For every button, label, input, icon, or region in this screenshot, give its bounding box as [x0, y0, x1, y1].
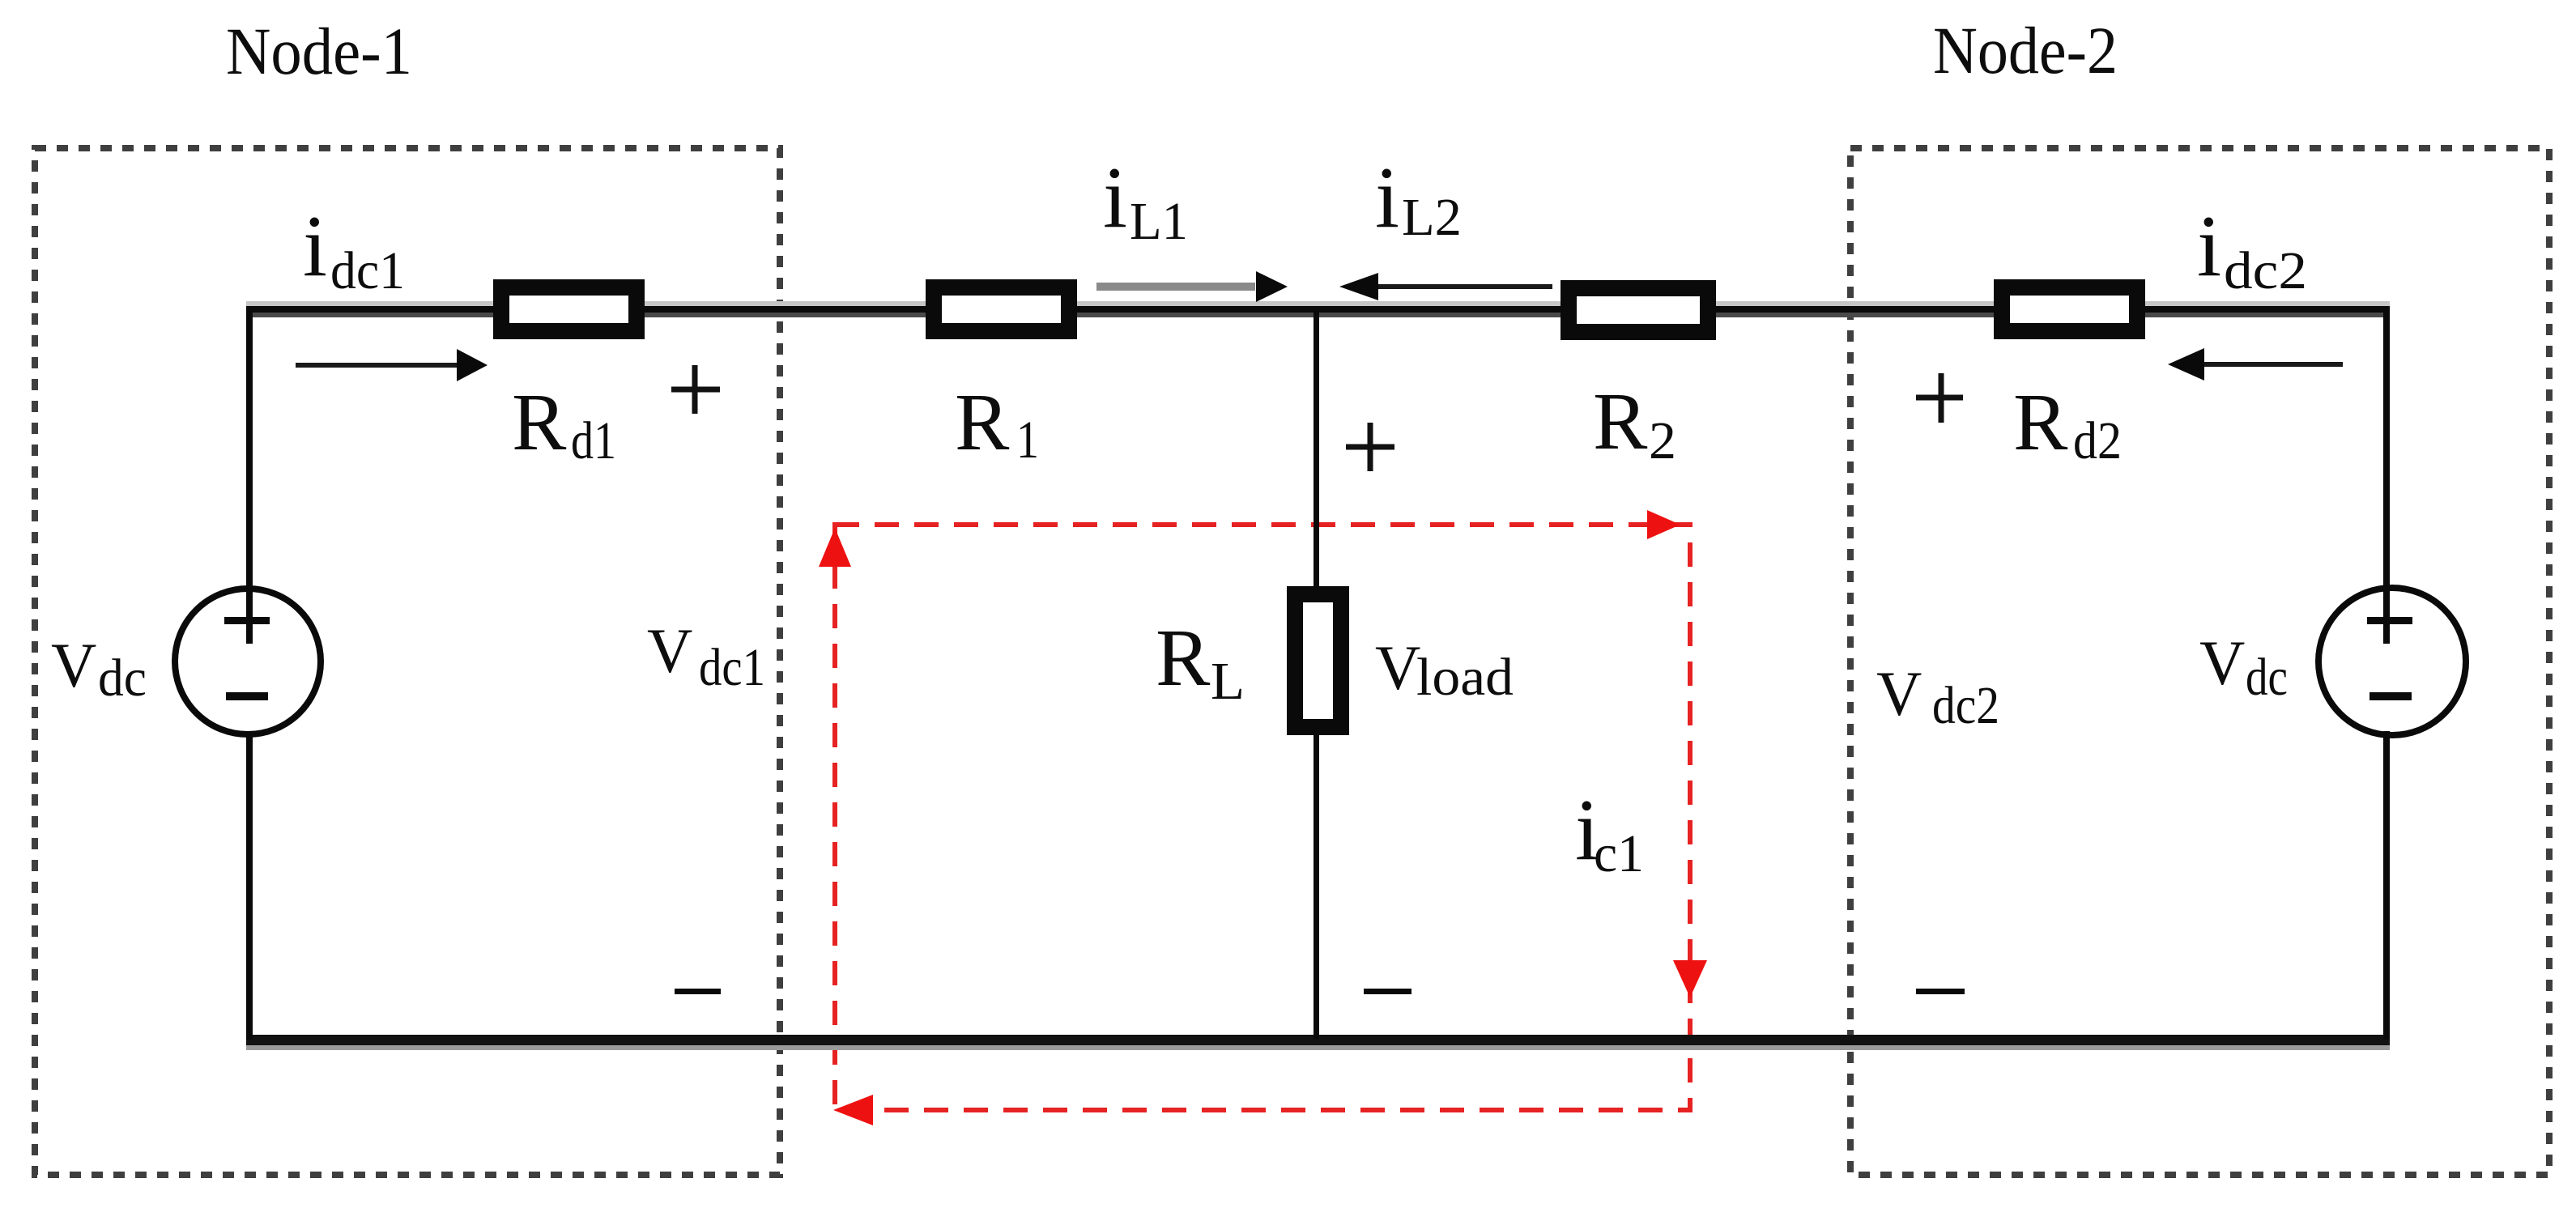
svg-text:Node-1: Node-1 [226, 14, 412, 88]
current arrow i_dc1 (points right) [296, 363, 458, 368]
wire top horizontal bus [246, 301, 2390, 306]
resistor Rd2 body [2002, 287, 2137, 331]
svg-text:V: V [1375, 632, 1420, 703]
svg-text:V: V [51, 630, 96, 700]
svg-text:V: V [647, 615, 692, 686]
svg-text:dc: dc [98, 649, 147, 708]
wire bottom horizontal bus [246, 1035, 2390, 1045]
polarity minus Vload [1364, 989, 1411, 994]
svg-text:i: i [2197, 198, 2221, 295]
svg-text:1: 1 [1016, 410, 1039, 470]
wire middle vertical upper segment (junction to RL) [1314, 313, 1319, 591]
voltage source Vdc (left) minus bar [226, 692, 268, 700]
voltage source Vdc (right) circle [2318, 588, 2466, 735]
polarity plus Vdc2 [1916, 373, 1963, 423]
node Node-1 dashed boundary box [35, 148, 780, 1175]
voltage source Vdc (left) plus bar [224, 617, 270, 624]
wire left vertical upper segment (top bus into Vdc plus stem) [246, 306, 253, 644]
svg-text:L1: L1 [1130, 192, 1188, 251]
svg-text:d2: d2 [2073, 411, 2122, 470]
svg-text:R: R [512, 376, 567, 467]
svg-text:d1: d1 [571, 411, 616, 470]
resistor Rd1 body [501, 287, 637, 331]
svg-text:i: i [1375, 150, 1399, 246]
svg-text:i: i [303, 198, 327, 295]
current arrow i_L1 (gray shaft, points right) [1096, 283, 1255, 291]
svg-text:Node-2: Node-2 [1933, 13, 2118, 87]
polarity plus Vdc1 [671, 365, 720, 414]
svg-text:V: V [2199, 627, 2245, 698]
current arrow i_dc2 (points left) [2204, 362, 2343, 367]
wire left vertical lower segment (Vdc to bottom bus) [246, 731, 253, 1040]
red loop arrow left (bottom-left) [833, 1095, 873, 1125]
current arrow i_L2 (points left) [1377, 284, 1552, 289]
svg-text:dc1: dc1 [330, 241, 405, 300]
node i_c1 red dashed mesh-current loop [835, 525, 1690, 1110]
svg-text:i: i [1103, 150, 1127, 246]
red loop arrow right (top-right) [1647, 510, 1680, 539]
wire right vertical upper segment (top bus into Vdc plus stem) [2383, 306, 2390, 644]
red loop arrow up (top-left) [819, 528, 851, 567]
svg-text:dc2: dc2 [2224, 241, 2307, 300]
resistor RL load body (vertical) [1295, 594, 1341, 727]
voltage source Vdc (left) circle [175, 589, 321, 734]
voltage source Vdc (right) plus bar [2367, 617, 2412, 624]
svg-text:dc2: dc2 [1932, 676, 1999, 735]
wire middle vertical lower segment (RL to bottom bus) [1314, 727, 1319, 1040]
svg-text:R: R [955, 376, 1010, 467]
svg-text:dc: dc [2246, 648, 2288, 707]
wire right vertical lower segment (Vdc to bottom bus) [2383, 731, 2390, 1040]
svg-text:load: load [1416, 648, 1514, 707]
polarity minus Vdc2 [1916, 989, 1965, 994]
node Node-2 dashed boundary box [1850, 148, 2549, 1175]
resistor R1 body [934, 287, 1069, 331]
red loop arrow down (bottom-right) [1673, 960, 1707, 997]
resistor R2 body [1569, 288, 1708, 332]
svg-text:R: R [1593, 376, 1648, 466]
polarity minus Vdc1 [675, 989, 721, 994]
svg-text:L: L [1211, 652, 1245, 711]
svg-text:R: R [1156, 612, 1211, 703]
svg-text:V: V [1876, 658, 1922, 729]
polarity plus Vload [1346, 423, 1394, 471]
svg-text:L2: L2 [1402, 188, 1462, 247]
svg-text:c1: c1 [1594, 824, 1644, 883]
svg-text:R: R [2013, 376, 2068, 467]
svg-text:dc1: dc1 [699, 638, 765, 697]
voltage source Vdc (right) minus bar [2369, 692, 2412, 700]
svg-text:2: 2 [1649, 411, 1676, 470]
